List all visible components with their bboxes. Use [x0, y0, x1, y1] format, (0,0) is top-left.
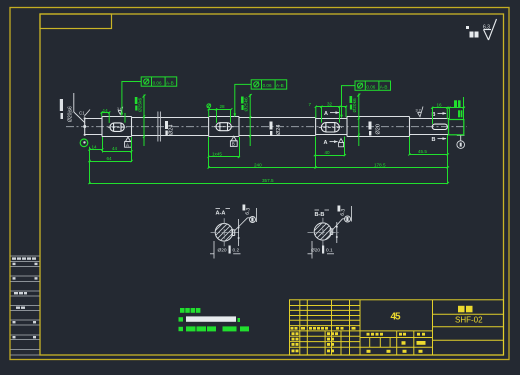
section arrow A lower with datum C	[324, 139, 344, 147]
dim 14 above K1	[101, 111, 125, 123]
svg-text:28: 28	[220, 104, 226, 109]
title block grid	[290, 300, 504, 355]
shaft centerline	[66, 126, 467, 128]
A-A hatching	[206, 206, 240, 265]
dim 16 above K4	[431, 107, 465, 125]
svg-text:0.06: 0.06	[153, 80, 162, 85]
A-A circle	[215, 224, 233, 242]
signature col texts	[292, 332, 295, 335]
svg-text:357.5: 357.5	[262, 178, 274, 183]
svg-text:240: 240	[254, 162, 262, 167]
A-A centerlines	[211, 232, 240, 234]
svg-text:6.3: 6.3	[245, 207, 252, 215]
svg-text:16: 16	[437, 103, 443, 108]
roughness symbol on S7	[418, 107, 424, 117]
svg-text:3.2: 3.2	[416, 109, 421, 113]
svg-text:14: 14	[92, 144, 98, 149]
section S3	[132, 117, 209, 119]
svg-text:SHF-02: SHF-02	[455, 316, 483, 325]
svg-text:B: B	[432, 137, 436, 143]
left margin table texts	[12, 257, 38, 338]
dim 7 and 32 above K3	[315, 106, 347, 123]
svg-text:A-B: A-B	[166, 80, 174, 85]
FCF 3	[355, 81, 391, 90]
svg-text:14: 14	[103, 108, 109, 113]
svg-text:32: 32	[327, 102, 333, 107]
section view A-A	[206, 205, 257, 266]
A-A leader to roughness	[235, 218, 248, 231]
section arrow A upper	[324, 111, 340, 117]
A-A keyway flat	[232, 229, 235, 237]
rotated dia dim on S6	[350, 94, 361, 147]
keyway K1	[108, 123, 127, 131]
datum symbol A under S2	[125, 137, 132, 147]
svg-text:B: B	[232, 142, 235, 147]
bottom dim 357.5 tier4	[88, 182, 449, 184]
title block texts	[291, 306, 484, 353]
svg-text:Ø24: Ø24	[169, 125, 175, 135]
section S6 keyseat	[316, 118, 347, 120]
bottom dim 178.5 tier3	[316, 166, 449, 168]
bottom dim 40 under S6	[314, 137, 346, 169]
svg-text:Ø20: Ø20	[376, 124, 382, 134]
revision table verticals	[299, 300, 301, 355]
left phi20 dimension line	[74, 93, 85, 123]
svg-text:A: A	[324, 140, 328, 146]
note line 1	[179, 317, 184, 321]
step S7/S8	[409, 117, 411, 137]
revision header tiny text	[291, 327, 294, 330]
B-B keyway flat	[330, 228, 333, 235]
section arrow B lower	[432, 137, 447, 143]
B-B hatching	[305, 206, 339, 265]
FCF 1	[141, 77, 177, 86]
FCF 1 leader	[121, 82, 142, 117]
bottom dim 64 tier2	[88, 160, 132, 162]
section S4 keyseat	[209, 116, 239, 118]
rotated phi24 label on S5	[270, 122, 283, 136]
svg-text:6.3: 6.3	[340, 208, 347, 216]
B-B width dim	[336, 222, 338, 243]
svg-text:64: 64	[107, 156, 113, 161]
FCF 3 leader	[340, 86, 355, 119]
section S2	[102, 116, 132, 118]
step S2/S3	[131, 117, 133, 137]
svg-text:0.1: 0.1	[326, 248, 333, 254]
svg-text:Ø20: Ø20	[311, 248, 320, 254]
section S5	[239, 117, 316, 119]
svg-text:Ø25k6: Ø25k6	[244, 97, 250, 111]
FCF 2	[251, 80, 287, 89]
keyway K4	[432, 124, 447, 129]
left phi20 rotated text	[60, 99, 74, 122]
left end dim arrows	[83, 117, 86, 136]
qiyu text blob	[470, 32, 474, 38]
note line 2	[179, 327, 184, 331]
section S8 right journal	[410, 118, 449, 120]
rotated dia dim on S4	[241, 94, 252, 146]
rotated phi20 label on S7	[369, 122, 382, 136]
section S1 left journal	[85, 118, 102, 120]
B-B leader to roughness	[333, 219, 343, 230]
svg-text:45: 45	[391, 312, 402, 323]
right end green box	[449, 120, 464, 135]
rotated dia dim on S2	[135, 95, 146, 147]
general roughness note top-right	[466, 19, 497, 40]
signature rows	[290, 335, 361, 337]
svg-text:Ø20: Ø20	[218, 248, 227, 254]
step S5/S6	[315, 118, 317, 136]
revision rows	[290, 305, 361, 307]
roughness symbol on S2	[118, 107, 123, 115]
break lines	[158, 112, 161, 142]
note title blob	[180, 308, 185, 313]
svg-text:Ø20k6: Ø20k6	[352, 98, 358, 112]
bottom dim 44 tier1	[103, 137, 133, 162]
svg-text:45.5: 45.5	[418, 149, 427, 154]
A-A width dim	[238, 219, 240, 246]
svg-text:A-B: A-B	[276, 83, 284, 88]
chamfer callout C1 left	[79, 110, 90, 117]
step S3/S4	[208, 117, 210, 137]
svg-text:A: A	[324, 111, 328, 117]
bottom dim 14 tier1	[88, 137, 103, 184]
step S6/S7	[346, 117, 348, 137]
detail circle left end	[80, 139, 88, 147]
rotated phi24 label on S3	[165, 121, 175, 135]
svg-text:44: 44	[112, 146, 118, 151]
sheet row texts	[367, 350, 371, 353]
svg-text:6.3: 6.3	[483, 25, 490, 31]
right end green texts	[454, 100, 462, 117]
svg-text:Ø25k6: Ø25k6	[137, 98, 143, 112]
svg-text:C1: C1	[79, 111, 85, 116]
svg-text:A-A: A-A	[216, 211, 226, 217]
right end face	[448, 119, 450, 135]
svg-text:B-B: B-B	[315, 212, 325, 218]
svg-text:0.06: 0.06	[366, 84, 375, 89]
middle cells	[360, 337, 433, 339]
bottom dim 45.5 under S8	[408, 135, 449, 184]
svg-text:Ø24: Ø24	[276, 125, 282, 135]
shaft body outline	[85, 117, 449, 137]
svg-text:178.5: 178.5	[374, 162, 386, 167]
section arrow B upper	[432, 112, 447, 118]
svg-text:Ø20js6: Ø20js6	[68, 106, 74, 122]
bottom dim 1x45 under S4	[208, 137, 240, 168]
svg-text:7: 7	[309, 102, 312, 107]
step S1/S2	[101, 117, 103, 137]
svg-text:A-B: A-B	[380, 84, 388, 89]
technical notes	[179, 308, 250, 331]
svg-text:0.06: 0.06	[263, 83, 272, 88]
left margin table	[11, 256, 40, 355]
step S4/S5	[238, 117, 240, 137]
right cells	[433, 313, 504, 315]
middle header tiny text	[367, 333, 370, 336]
top-left zone box	[40, 14, 112, 29]
right end tall ext line	[463, 97, 465, 120]
svg-text:A: A	[126, 142, 129, 147]
keyway K2	[214, 123, 234, 131]
B-B circle	[314, 223, 331, 240]
keyway K3	[319, 123, 342, 132]
section view B-B	[305, 206, 352, 266]
section S7	[347, 116, 410, 118]
datum symbol B under S4	[230, 136, 237, 146]
svg-text:0.2: 0.2	[233, 248, 240, 254]
part name blob	[458, 306, 465, 313]
B-B centerlines	[308, 232, 339, 234]
bottom dim 240 tier3	[208, 137, 317, 169]
svg-text:40: 40	[325, 150, 331, 155]
center hole callout right end	[457, 135, 465, 148]
dim 7 and 28 above K2	[208, 108, 233, 123]
svg-text:1x45: 1x45	[212, 152, 222, 157]
roughness symbol	[484, 19, 497, 40]
FCF 2 leader	[234, 84, 252, 117]
